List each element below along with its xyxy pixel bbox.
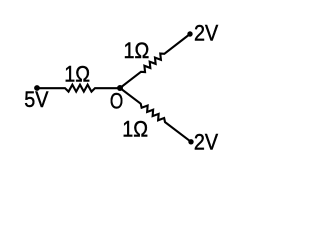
wire + resistor R3 (1 ohm, node O to lower-right 2V terminal) — [120, 88, 191, 142]
svg-text:O: O — [110, 90, 123, 115]
terminal dot 2V top — [187, 31, 192, 36]
node O junction dot — [117, 85, 123, 91]
svg-text:1Ω: 1Ω — [124, 39, 150, 63]
svg-text:5V: 5V — [24, 88, 48, 112]
svg-text:1Ω: 1Ω — [122, 118, 148, 142]
svg-text:1Ω: 1Ω — [64, 62, 90, 86]
wire + resistor R1 (1 ohm, left horizontal, 5V terminal to node O) — [37, 85, 120, 92]
wire + resistor R2 (1 ohm, node O to upper-right 2V terminal) — [120, 34, 190, 88]
svg-text:2V: 2V — [194, 131, 218, 155]
terminal dot 2V bottom — [188, 139, 193, 144]
terminal dot 5V — [34, 85, 40, 91]
svg-text:2V: 2V — [194, 22, 218, 46]
